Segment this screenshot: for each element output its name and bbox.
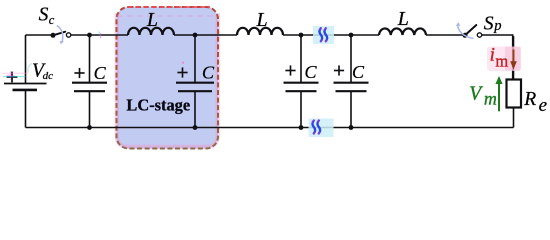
capacitor C1 plates — [72, 83, 107, 92]
svg-text:p: p — [493, 18, 501, 34]
svg-text:C: C — [202, 63, 215, 83]
node dot top C1 — [87, 33, 92, 38]
resistor R_e (load) — [507, 80, 522, 108]
svg-text:LC-stage: LC-stage — [126, 96, 190, 115]
guide tick on top wire — [100, 33, 102, 38]
current arrow i_m — [505, 47, 521, 71]
plus sign of C1 — [74, 68, 84, 78]
DC source V_dc (battery) — [4, 84, 47, 90]
break top squiggles — [319, 28, 322, 41]
svg-text:m: m — [495, 52, 508, 71]
LC-stage highlight box — [117, 7, 219, 149]
switch Sc — [51, 26, 71, 45]
svg-text:C: C — [352, 62, 365, 82]
inductor L2 — [237, 28, 283, 35]
plus sign of C4 — [334, 65, 344, 75]
svg-text:V: V — [469, 83, 483, 104]
svg-text:R: R — [523, 89, 536, 110]
wire top right + right drop — [482, 35, 513, 80]
svg-text:L: L — [397, 8, 409, 30]
node dot bottom C2 — [193, 125, 198, 130]
voltage arrow V_m — [498, 83, 500, 111]
plus sign of LC-stage capacitor — [177, 72, 187, 74]
svg-text:c: c — [49, 13, 55, 27]
node dot bottom C3 — [299, 125, 304, 130]
plus sign of C3 — [285, 65, 295, 75]
node dot bottom C4 — [349, 125, 354, 130]
node dot top C4 — [349, 33, 354, 38]
i_m glow — [487, 47, 521, 72]
node dot bottom C1 — [87, 125, 92, 130]
break bottom squiggles — [312, 121, 315, 134]
cap branch wires — [89, 35, 91, 128]
break bottom glow — [309, 119, 334, 138]
inductor L3 — [379, 28, 426, 35]
svg-text:L: L — [256, 9, 268, 31]
break top glow — [313, 26, 334, 44]
switch Sp — [456, 22, 482, 38]
svg-text:C: C — [305, 62, 318, 82]
wire right lower — [513, 108, 515, 128]
wire left column — [25, 35, 27, 128]
svg-text:i: i — [490, 44, 495, 65]
capacitor C (LC-stage) plates — [176, 83, 214, 92]
svg-text:S: S — [484, 13, 494, 34]
capacitor C3 plates — [284, 83, 319, 92]
plus sign of V_dc — [7, 72, 18, 83]
capacitor C4 plates — [334, 83, 369, 92]
svg-text:m: m — [484, 89, 497, 109]
svg-text:dc: dc — [43, 70, 54, 82]
wire top left — [26, 34, 54, 36]
svg-text:e: e — [539, 95, 547, 116]
node dot top C3 — [299, 33, 304, 38]
guide artifacts near Vdc plus — [2, 72, 28, 74]
svg-text:S: S — [39, 4, 49, 25]
node dot top C2 (LC-stage) — [193, 33, 198, 38]
svg-text:C: C — [94, 63, 107, 83]
wire top mid — [71, 34, 463, 36]
inductor L1 — [128, 28, 174, 35]
svg-text:L: L — [146, 9, 158, 31]
wire bottom — [26, 127, 514, 129]
